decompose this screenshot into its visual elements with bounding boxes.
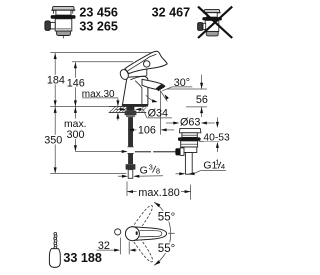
svg-text:106: 106 — [138, 125, 156, 137]
svg-text:3: 3 — [149, 162, 153, 171]
drain neck — [182, 133, 197, 138]
svg-text:max.30: max.30 — [82, 89, 115, 100]
extension line top of body (146 ref) — [72, 61, 133, 63]
svg-text:Ø63: Ø63 — [180, 117, 200, 129]
svg-text:G: G — [140, 165, 148, 177]
label 40-53 — [204, 133, 230, 141]
G3/8 nipple tube — [128, 170, 133, 179]
pivot mark — [136, 231, 138, 235]
deck cross-section hatched — [109, 106, 147, 112]
pop-up linkage rod to drain — [135, 151, 176, 153]
base dark band — [122, 104, 148, 106]
arc mid tick — [168, 232, 175, 234]
outlet reference line — [159, 91, 161, 135]
30deg arc arrow — [146, 95, 156, 102]
drain mid body — [182, 147, 197, 153]
30deg slanted line — [160, 91, 167, 102]
max30 lower arrow shaft — [117, 113, 119, 120]
svg-text:40-53: 40-53 — [203, 133, 230, 144]
dashed lever rotated up 55 — [132, 204, 155, 233]
dim G1 1/4 arrows at tailpipe — [176, 171, 227, 174]
label 55 lower — [157, 242, 178, 253]
svg-text:33 188: 33 188 — [63, 251, 102, 265]
drain rod knob — [175, 148, 180, 155]
svg-text:23 456: 23 456 — [79, 6, 118, 20]
label 55 upper — [157, 211, 178, 222]
lever nose oval — [119, 68, 130, 80]
dimension line 184 — [54, 53, 56, 106]
arrow 56 bottom — [200, 107, 203, 113]
svg-text:max.180: max.180 — [138, 187, 179, 199]
lever pivot circle — [125, 227, 139, 241]
aerator dark tip — [156, 84, 165, 91]
svg-text:184: 184 — [47, 75, 65, 87]
dome top line — [130, 76, 146, 80]
arrow 184 top — [54, 53, 57, 59]
svg-text:32 467: 32 467 — [152, 6, 191, 20]
arrow max300 top — [74, 107, 77, 113]
drain flange cap — [179, 128, 201, 132]
arrow 350 top — [54, 107, 57, 113]
drain upper body mid line — [181, 143, 198, 145]
dimension line 146 — [74, 62, 76, 106]
svg-text:56: 56 — [196, 94, 208, 106]
svg-text:350: 350 — [44, 135, 62, 147]
body crease line — [135, 81, 142, 105]
pop-up rod knob behind lever — [144, 61, 150, 67]
extension line spout outlet (56 ref) — [167, 88, 207, 90]
swivel arc 55-55 — [154, 202, 171, 265]
dim 106 — [128, 129, 174, 131]
threaded shank through deck — [126, 104, 134, 110]
arrow max30 up — [116, 113, 119, 119]
arc arrowhead upper — [154, 202, 160, 207]
label 184 — [47, 75, 66, 85]
arrow max300 bottom — [74, 145, 77, 151]
dim 40-53 — [199, 118, 220, 153]
hose break cap lower — [127, 152, 134, 154]
arrow 350 bottom — [54, 167, 57, 173]
drain tailpipe — [185, 153, 192, 175]
arrow max300 shelf to hose — [122, 150, 128, 153]
max30 shelf — [82, 97, 118, 99]
drain neck mid line — [182, 134, 197, 136]
dim max.180 — [127, 182, 191, 200]
supply hose lower — [128, 153, 133, 164]
svg-text:33 265: 33 265 — [79, 19, 118, 33]
56 upper shaft — [201, 75, 203, 89]
svg-text:300: 300 — [66, 129, 84, 141]
supply hose upper — [128, 117, 133, 147]
lever blade inner crease — [127, 54, 157, 71]
drain upper body — [181, 141, 198, 147]
drain rod port — [180, 148, 184, 156]
svg-text:30°: 30° — [174, 77, 190, 89]
arrow max30 down — [116, 100, 119, 106]
extension line top of lever (184 ref) — [50, 52, 155, 54]
label 146 — [66, 78, 85, 88]
dim 56 — [167, 75, 207, 117]
lever top view solid blade — [132, 227, 167, 241]
label max. 300 — [65, 119, 86, 139]
spout wedge — [142, 79, 165, 89]
hose nut G3/8 — [126, 164, 136, 169]
dimension line 350 — [54, 106, 56, 173]
arrow 56 top — [200, 83, 203, 89]
hose break cap upper — [127, 146, 134, 148]
arrow 184 bottom — [54, 100, 57, 106]
svg-text:55°: 55° — [158, 211, 175, 223]
cross-out X lines — [198, 7, 232, 38]
dim Ø34 arrows at shank — [115, 109, 172, 118]
extension line deck right (56 ref) — [186, 106, 207, 108]
washer — [126, 115, 135, 117]
shelf line max300 to hose — [75, 151, 126, 153]
dimension line max300 — [74, 106, 76, 151]
dashed lever rotated down 55 — [132, 235, 155, 264]
30deg leader — [162, 87, 172, 91]
drain seal ring — [178, 137, 201, 141]
extension line deck level left — [50, 105, 108, 107]
30deg annotation shelf — [172, 86, 192, 88]
svg-text:146: 146 — [67, 78, 85, 90]
56 lower shaft — [201, 107, 203, 117]
svg-text:8: 8 — [156, 166, 160, 175]
bottom line hose end level (350 ref) — [50, 172, 126, 174]
svg-text:4: 4 — [221, 162, 225, 171]
chain icon beads — [54, 232, 57, 249]
svg-text:55°: 55° — [158, 243, 175, 255]
arrow 146 bottom — [74, 100, 77, 106]
crossed-out pop-up waste icon (top-right) — [198, 9, 222, 36]
svg-text:Ø34: Ø34 — [148, 108, 168, 120]
arc arrowhead lower — [154, 260, 160, 265]
lever handle blade — [125, 51, 167, 73]
faucet body and spout outline — [123, 76, 148, 104]
max30 upper arrow shaft — [117, 98, 119, 106]
dim G3/8 arrows at nipple — [118, 175, 163, 177]
lever inner contour — [140, 230, 162, 237]
chain pendant — [49, 249, 60, 268]
lever nose circle — [115, 229, 121, 235]
pop-up waste icon (top-left) — [45, 6, 76, 38]
30deg slant arrowhead — [165, 94, 169, 99]
label 350 — [44, 135, 63, 145]
mounting nut — [125, 111, 137, 116]
dim Ø63 — [166, 122, 215, 124]
arrow 146 top — [74, 62, 77, 68]
pop-up rod stem — [146, 67, 148, 76]
dim 32 — [97, 238, 137, 255]
